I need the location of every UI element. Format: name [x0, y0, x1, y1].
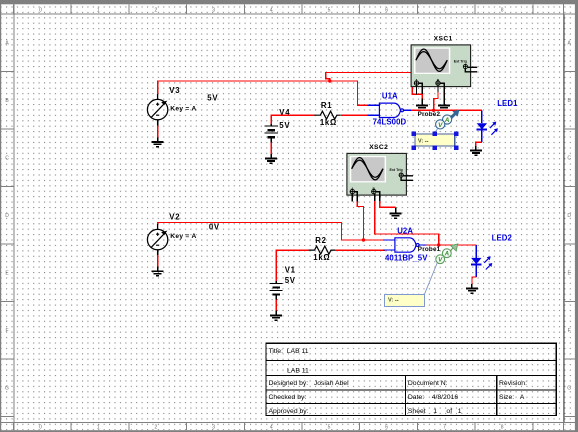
oscilloscope XSC1 [411, 45, 477, 87]
svg-text:A: A [444, 117, 450, 124]
resistor R1 [314, 111, 341, 119]
svg-text:R2: R2 [315, 236, 326, 245]
XSC1 terminal A lead down to V3 net [416, 85, 418, 94]
svg-text:1kΩ: 1kΩ [313, 253, 330, 262]
svg-text:4: 4 [270, 425, 273, 431]
svg-text:5V: 5V [279, 121, 290, 130]
resistor R2 [309, 246, 336, 254]
svg-text:V: --: V: -- [388, 297, 399, 303]
LED LED2 [471, 245, 492, 277]
probe1 value box [384, 294, 424, 306]
XSC1 terminal B ground lead [440, 83, 444, 101]
svg-text:Approved by:: Approved by: [269, 408, 309, 415]
ruler tick dividers [13, 4, 15, 14]
ground (V2) [152, 267, 164, 276]
svg-text:4011BP_5V: 4011BP_5V [385, 253, 428, 262]
XSC2 terminal B lead down to U2A output net [374, 194, 376, 201]
svg-text:G: G [567, 386, 571, 392]
svg-text:U1A: U1A [382, 92, 398, 101]
svg-text:Date: 4/8/2016: Date: 4/8/2016 [408, 394, 458, 401]
ground (V1) [270, 311, 282, 320]
wire V4 bottom to ground [270, 142, 272, 154]
wire net V2 output: V2 top to 0V run [158, 222, 386, 240]
XSC1 terminal B lead to U1A output net [437, 85, 439, 92]
svg-text:XSC2: XSC2 [369, 144, 388, 151]
svg-text:6: 6 [385, 7, 388, 13]
op-amp U2A NAND gate [383, 238, 427, 252]
svg-text:V: V [438, 122, 443, 129]
XSC2 terminal A lead to U2A input net [355, 192, 358, 202]
wire LED1 cathode to ground [476, 142, 482, 148]
svg-text:Designed by: Josiah Abel: Designed by: Josiah Abel [269, 380, 350, 387]
svg-text:Checked by:: Checked by: [269, 394, 307, 401]
selection handles [411, 131, 416, 136]
svg-text:V3: V3 [169, 86, 180, 95]
svg-text:5: 5 [328, 425, 331, 431]
wire U1A output to LED1 [411, 109, 482, 111]
wire LED2 cathode to ground [472, 277, 476, 285]
wire U2A output to LED2 [427, 244, 477, 246]
svg-text:Sheet 1 of 1: Sheet 1 of 1 [408, 408, 462, 415]
junction node V3 net [328, 79, 331, 82]
voltage source V2 [147, 224, 167, 255]
svg-text:0: 0 [39, 425, 42, 431]
svg-text:Document N:: Document N: [408, 380, 448, 387]
svg-text:D: D [5, 213, 9, 219]
wire branch to XSC1 channel A (step up and across) [326, 73, 423, 95]
probe Probe2 V/A circles [443, 115, 452, 124]
svg-text:Revision:: Revision: [499, 380, 527, 387]
svg-text:7: 7 [443, 7, 446, 13]
svg-text:Key = A: Key = A [170, 106, 196, 113]
ground (LED2) [466, 284, 478, 293]
svg-text:6: 6 [385, 425, 388, 431]
svg-text:8: 8 [501, 7, 504, 13]
svg-text:V1: V1 [285, 266, 296, 275]
probe Probe1 arrow [444, 246, 455, 257]
wire branch to U1A input 1 [330, 81, 368, 105]
title block frame [266, 343, 556, 415]
svg-text:5V: 5V [285, 276, 296, 285]
svg-text:V2: V2 [169, 212, 180, 221]
svg-text:C: C [5, 156, 9, 162]
svg-text:D: D [567, 213, 571, 219]
oscilloscope XSC2 [347, 153, 413, 195]
svg-text:0: 0 [39, 7, 42, 13]
probe Probe1 V/A circles [442, 249, 451, 258]
title block texts [269, 348, 528, 415]
wire V2 bottom to ground [157, 255, 159, 267]
svg-text:5: 5 [328, 7, 331, 13]
svg-text:Probe2: Probe2 [418, 111, 441, 118]
probe Probe2 arrow [445, 111, 457, 123]
junction (XSC2 A tap on 0V net) [362, 238, 365, 241]
svg-text:1kΩ: 1kΩ [320, 118, 337, 127]
op-amp U1A NAND gate [367, 103, 411, 117]
wire V1 bottom to ground [275, 300, 277, 311]
svg-text:3: 3 [212, 7, 215, 13]
svg-text:74LS00D: 74LS00D [373, 118, 407, 127]
ground (V4) [265, 154, 277, 163]
svg-text:LED2: LED2 [492, 234, 513, 243]
svg-text:Probe1: Probe1 [418, 246, 441, 253]
probe2 value box (selected) [415, 134, 455, 146]
svg-text:XSC1: XSC1 [434, 36, 453, 43]
svg-text:R1: R1 [321, 101, 332, 110]
svg-text:1: 1 [97, 7, 100, 13]
probe2 leader line [435, 128, 438, 133]
ground (XSC1 A) [416, 101, 428, 110]
svg-text:8: 8 [501, 425, 504, 431]
svg-text:Key = A: Key = A [170, 233, 196, 240]
svg-text:2: 2 [155, 425, 158, 431]
XSC2 terminal A stub [351, 194, 353, 202]
svg-text:F: F [568, 328, 571, 334]
wire V1 top to R2 to U2A input 2 [276, 250, 308, 281]
ground (V3) [152, 138, 164, 147]
ground (XSC1 B) [438, 101, 450, 110]
ground (LED1) [470, 146, 482, 155]
svg-text:1: 1 [97, 425, 100, 431]
XSC2 terminal B ground lead [376, 192, 379, 201]
svg-text:Title: LAB 11: Title: LAB 11 [269, 348, 309, 355]
svg-text:4: 4 [270, 7, 273, 13]
svg-text:A: A [444, 251, 450, 258]
svg-text:G: G [5, 386, 9, 392]
battery V1 [270, 281, 283, 300]
svg-text:F: F [5, 328, 8, 334]
LED LED1 [477, 110, 498, 142]
junction (scope B tap on U1A output) [432, 109, 435, 112]
svg-text:5V: 5V [207, 93, 218, 102]
battery V4 [265, 124, 278, 143]
svg-text:3: 3 [212, 425, 215, 431]
svg-text:C: C [567, 156, 571, 162]
voltage source V3 [147, 94, 167, 125]
wire V3 bottom to ground [157, 125, 159, 137]
svg-text:0V: 0V [209, 223, 220, 232]
svg-text:7: 7 [443, 425, 446, 431]
svg-text:LAB 11: LAB 11 [287, 368, 309, 375]
svg-text:Size: A: Size: A [499, 394, 525, 401]
probe1 leader line [424, 263, 437, 295]
wire net V3 output: V3 top to junction [158, 81, 330, 94]
wire V4 top to R1 to U1A input 2 [271, 115, 314, 124]
ground (XSC2) [390, 209, 402, 218]
svg-text:LED1: LED1 [497, 99, 518, 108]
svg-text:2: 2 [155, 7, 158, 13]
top ruler divider line extensions [0, 13, 578, 15]
XSC1 terminal A ground lead [419, 83, 423, 94]
junction (scope B tap on U2A output) [437, 243, 440, 246]
svg-text:V: --: V: -- [418, 138, 429, 144]
